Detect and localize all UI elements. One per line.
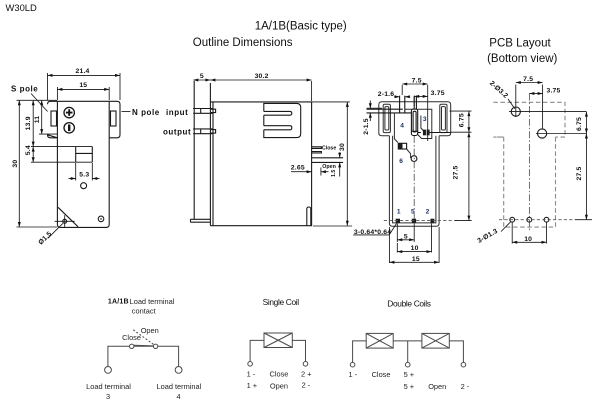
svg-text:7.5: 7.5 bbox=[412, 78, 422, 85]
double coil box 1 bbox=[366, 333, 393, 348]
bottom pivot circle bbox=[98, 216, 104, 222]
svg-text:Load terminal: Load terminal bbox=[157, 382, 202, 391]
pcb center line bbox=[528, 94, 530, 232]
svg-text:10: 10 bbox=[524, 236, 532, 243]
svg-text:2-1.5: 2-1.5 bbox=[363, 118, 370, 135]
switch arm open dashed bbox=[132, 329, 153, 344]
pin 3 pad bbox=[423, 130, 430, 136]
svg-text:S pole: S pole bbox=[11, 84, 38, 93]
dimension 10 bottom view bbox=[431, 224, 433, 253]
double coil terminal 2 bbox=[461, 362, 466, 367]
front view flange left edge bbox=[193, 81, 195, 219]
screw with cross slot bbox=[64, 107, 74, 117]
comb contact block bbox=[264, 103, 301, 137]
svg-text:PCB Layout: PCB Layout bbox=[489, 37, 551, 49]
svg-text:5 +: 5 + bbox=[404, 370, 414, 379]
svg-text:5: 5 bbox=[200, 73, 204, 80]
pin 5 pad bbox=[412, 219, 416, 223]
svg-text:N pole: N pole bbox=[132, 108, 160, 117]
close contact tab bbox=[312, 147, 322, 153]
svg-text:2 -: 2 - bbox=[302, 381, 311, 390]
bottom view left wing slot bbox=[383, 104, 390, 132]
svg-text:2 -: 2 - bbox=[461, 382, 470, 391]
load terminal 4 circle bbox=[175, 367, 182, 374]
N pole label bbox=[122, 111, 131, 113]
dimension 5 front view bbox=[193, 79, 311, 81]
terminal box bbox=[76, 147, 93, 163]
svg-text:3.75: 3.75 bbox=[431, 90, 445, 97]
svg-text:1.5: 1.5 bbox=[331, 170, 337, 177]
svg-text:Outline Dimensions: Outline Dimensions bbox=[193, 37, 293, 49]
bottom view right wing slot bbox=[440, 104, 447, 132]
side view left mounting notch bbox=[51, 111, 57, 126]
dimension 15 bottom view bbox=[388, 227, 390, 263]
front view body inner edge bbox=[212, 102, 214, 226]
side view relay body outline bbox=[57, 101, 109, 227]
left contact point bbox=[130, 344, 134, 348]
center pin channel bbox=[411, 109, 417, 136]
dimension 21.4 bbox=[47, 73, 49, 100]
svg-text:5.3: 5.3 bbox=[79, 171, 89, 178]
pin 4 terminal tab bbox=[400, 96, 405, 113]
svg-text:Close: Close bbox=[372, 370, 391, 379]
svg-text:2: 2 bbox=[426, 209, 430, 216]
svg-text:Close: Close bbox=[270, 370, 289, 379]
svg-text:30: 30 bbox=[339, 143, 346, 151]
svg-text:11: 11 bbox=[34, 116, 41, 124]
dimension 30 side view bbox=[17, 99, 58, 101]
svg-text:6.75: 6.75 bbox=[576, 117, 583, 131]
bottom right pin slot front view bbox=[307, 207, 311, 226]
svg-text:27.5: 27.5 bbox=[576, 166, 583, 180]
output terminal tab bbox=[193, 129, 216, 134]
svg-text:W30LD: W30LD bbox=[6, 2, 37, 13]
svg-text:4: 4 bbox=[400, 122, 404, 129]
svg-text:7.5: 7.5 bbox=[523, 76, 533, 83]
pin 3 strip line bbox=[418, 132, 421, 134]
svg-text:30.2: 30.2 bbox=[255, 73, 269, 80]
pcb hole 2 bbox=[538, 129, 547, 138]
svg-text:1 -: 1 - bbox=[247, 370, 256, 379]
dimension 6.75 bottom view bbox=[450, 110, 472, 112]
dimension 6.75 pcb bbox=[585, 112, 587, 134]
svg-text:13.9: 13.9 bbox=[25, 116, 32, 130]
svg-text:1: 1 bbox=[397, 209, 401, 216]
pin row dashed line bbox=[384, 220, 458, 222]
dimension 5.3 bbox=[75, 163, 77, 181]
dimension 15 bbox=[56, 87, 58, 100]
second terminal tab bbox=[414, 96, 416, 110]
double coil box 2 bbox=[422, 333, 449, 348]
svg-text:27.5: 27.5 bbox=[453, 165, 460, 179]
dimension 10 pcb bbox=[511, 223, 513, 244]
svg-text:30: 30 bbox=[12, 160, 19, 168]
bottom view head outline bbox=[379, 102, 451, 136]
pcb hole 1 bbox=[511, 107, 520, 116]
dimension 27.5 bottom view bbox=[451, 131, 472, 133]
svg-text:5 +: 5 + bbox=[404, 382, 414, 391]
svg-text:2-1.6: 2-1.6 bbox=[378, 91, 395, 98]
svg-text:10: 10 bbox=[411, 245, 419, 252]
left cavity outline bbox=[394, 113, 410, 158]
svg-text:2 +: 2 + bbox=[301, 370, 311, 379]
right contact point bbox=[153, 344, 157, 348]
svg-text:15: 15 bbox=[79, 82, 87, 89]
pcb dashed head outline bbox=[493, 102, 565, 137]
single coil terminal 2 bbox=[303, 362, 308, 367]
front view body outline bbox=[210, 102, 311, 226]
svg-text:6: 6 bbox=[399, 158, 403, 165]
pcb hole 1 axis line bbox=[509, 111, 586, 113]
leader to rivet diameter 1.5 bbox=[48, 223, 63, 238]
pin 3 cavity outline bbox=[405, 109, 432, 138]
screw with straight slot bbox=[64, 123, 74, 133]
double coil middle wire bbox=[393, 341, 422, 363]
svg-text:Open: Open bbox=[428, 382, 446, 391]
dimension 11 bbox=[39, 133, 57, 135]
pcb pin hole 2 bbox=[527, 217, 532, 222]
double coil right wire bbox=[449, 341, 463, 363]
front view flange foot bbox=[191, 219, 211, 222]
svg-text:1 -: 1 - bbox=[349, 370, 358, 379]
open contact lines bbox=[312, 157, 344, 159]
double coil left wire bbox=[353, 341, 367, 363]
svg-text:input: input bbox=[166, 108, 188, 117]
dimension 5 bottom view bbox=[396, 224, 398, 243]
bottom view body column bbox=[389, 136, 439, 227]
svg-text:(Bottom view): (Bottom view) bbox=[487, 53, 557, 65]
svg-text:Load terminal: Load terminal bbox=[86, 382, 131, 391]
pcb pin hole 1 bbox=[510, 217, 515, 222]
dimension 13.9 bbox=[32, 100, 34, 146]
pin 2 pad bbox=[431, 219, 435, 223]
svg-text:1A/1B(Basic type): 1A/1B(Basic type) bbox=[255, 20, 347, 32]
pcb dashed column bbox=[504, 137, 556, 227]
contact wire bbox=[108, 346, 179, 366]
pushbutton circle bbox=[81, 183, 87, 189]
side view right mounting notch bbox=[111, 111, 117, 126]
dimension 27.5 pcb bbox=[585, 134, 587, 220]
svg-text:Open: Open bbox=[270, 382, 288, 391]
dimension 3.75 bottom view bbox=[413, 97, 415, 106]
svg-text:Double Coils: Double Coils bbox=[387, 298, 430, 308]
pcb pin hole 3 bbox=[544, 217, 549, 222]
terminal band upper line bbox=[31, 146, 92, 148]
pin 1 pad bbox=[396, 219, 400, 223]
svg-text:3: 3 bbox=[106, 392, 110, 401]
svg-text:Open: Open bbox=[141, 326, 159, 335]
svg-text:1A/1B: 1A/1B bbox=[108, 299, 129, 306]
double coil terminal 5 bbox=[405, 362, 410, 367]
svg-text:Open: Open bbox=[322, 164, 336, 170]
dimension 1.5 contact gap bbox=[339, 152, 341, 158]
single coil box bbox=[264, 333, 292, 348]
dimension 7.5 bottom view bbox=[401, 85, 403, 95]
svg-text:Single Coil: Single Coil bbox=[263, 297, 300, 307]
svg-text:output: output bbox=[163, 127, 191, 136]
load terminal 3 circle bbox=[105, 367, 112, 374]
dimension 3.75 pcb bbox=[529, 93, 542, 95]
pin 6 pad bbox=[398, 143, 406, 149]
comb slot 1 bbox=[264, 111, 292, 115]
S pole leader bbox=[31, 94, 48, 112]
side view relay head outline bbox=[48, 101, 121, 138]
svg-text:5.4: 5.4 bbox=[25, 145, 32, 155]
double coil terminal 1 bbox=[350, 362, 355, 367]
comb slot 2 bbox=[264, 126, 292, 130]
svg-text:4: 4 bbox=[176, 392, 180, 401]
svg-text:5: 5 bbox=[411, 209, 415, 216]
svg-text:2.65: 2.65 bbox=[291, 165, 305, 172]
single coil terminal 1 bbox=[248, 362, 253, 367]
svg-text:Close: Close bbox=[122, 333, 141, 342]
corner chamfer line bbox=[58, 207, 78, 227]
svg-text:5: 5 bbox=[404, 233, 408, 240]
single coil left wire bbox=[250, 340, 264, 361]
svg-text:15: 15 bbox=[412, 256, 420, 263]
svg-text:21.4: 21.4 bbox=[75, 68, 89, 75]
center circle bbox=[411, 156, 417, 162]
center line bottom view bbox=[413, 136, 415, 222]
svg-text:Load terminal: Load terminal bbox=[130, 297, 175, 306]
dimension 2-1.5 bbox=[367, 107, 383, 109]
pcb hole 2 axis line bbox=[536, 133, 586, 135]
svg-text:6.75: 6.75 bbox=[458, 113, 465, 127]
dimension 30 front view bbox=[312, 101, 350, 103]
svg-text:1 +: 1 + bbox=[247, 381, 257, 390]
dimension 7.5 pcb bbox=[515, 85, 517, 118]
input terminal tab bbox=[193, 109, 216, 114]
svg-text:3.75: 3.75 bbox=[546, 87, 560, 94]
single coil right wire bbox=[292, 340, 305, 361]
svg-text:contact: contact bbox=[132, 307, 156, 316]
switch arm closed bbox=[134, 344, 153, 347]
rivet circle bbox=[63, 219, 67, 223]
pcb pin row line bbox=[499, 219, 575, 221]
svg-text:Close: Close bbox=[322, 146, 336, 152]
front view flange right edge bbox=[209, 83, 211, 226]
svg-text:3: 3 bbox=[423, 116, 427, 123]
terminal band lower line bbox=[31, 161, 92, 163]
